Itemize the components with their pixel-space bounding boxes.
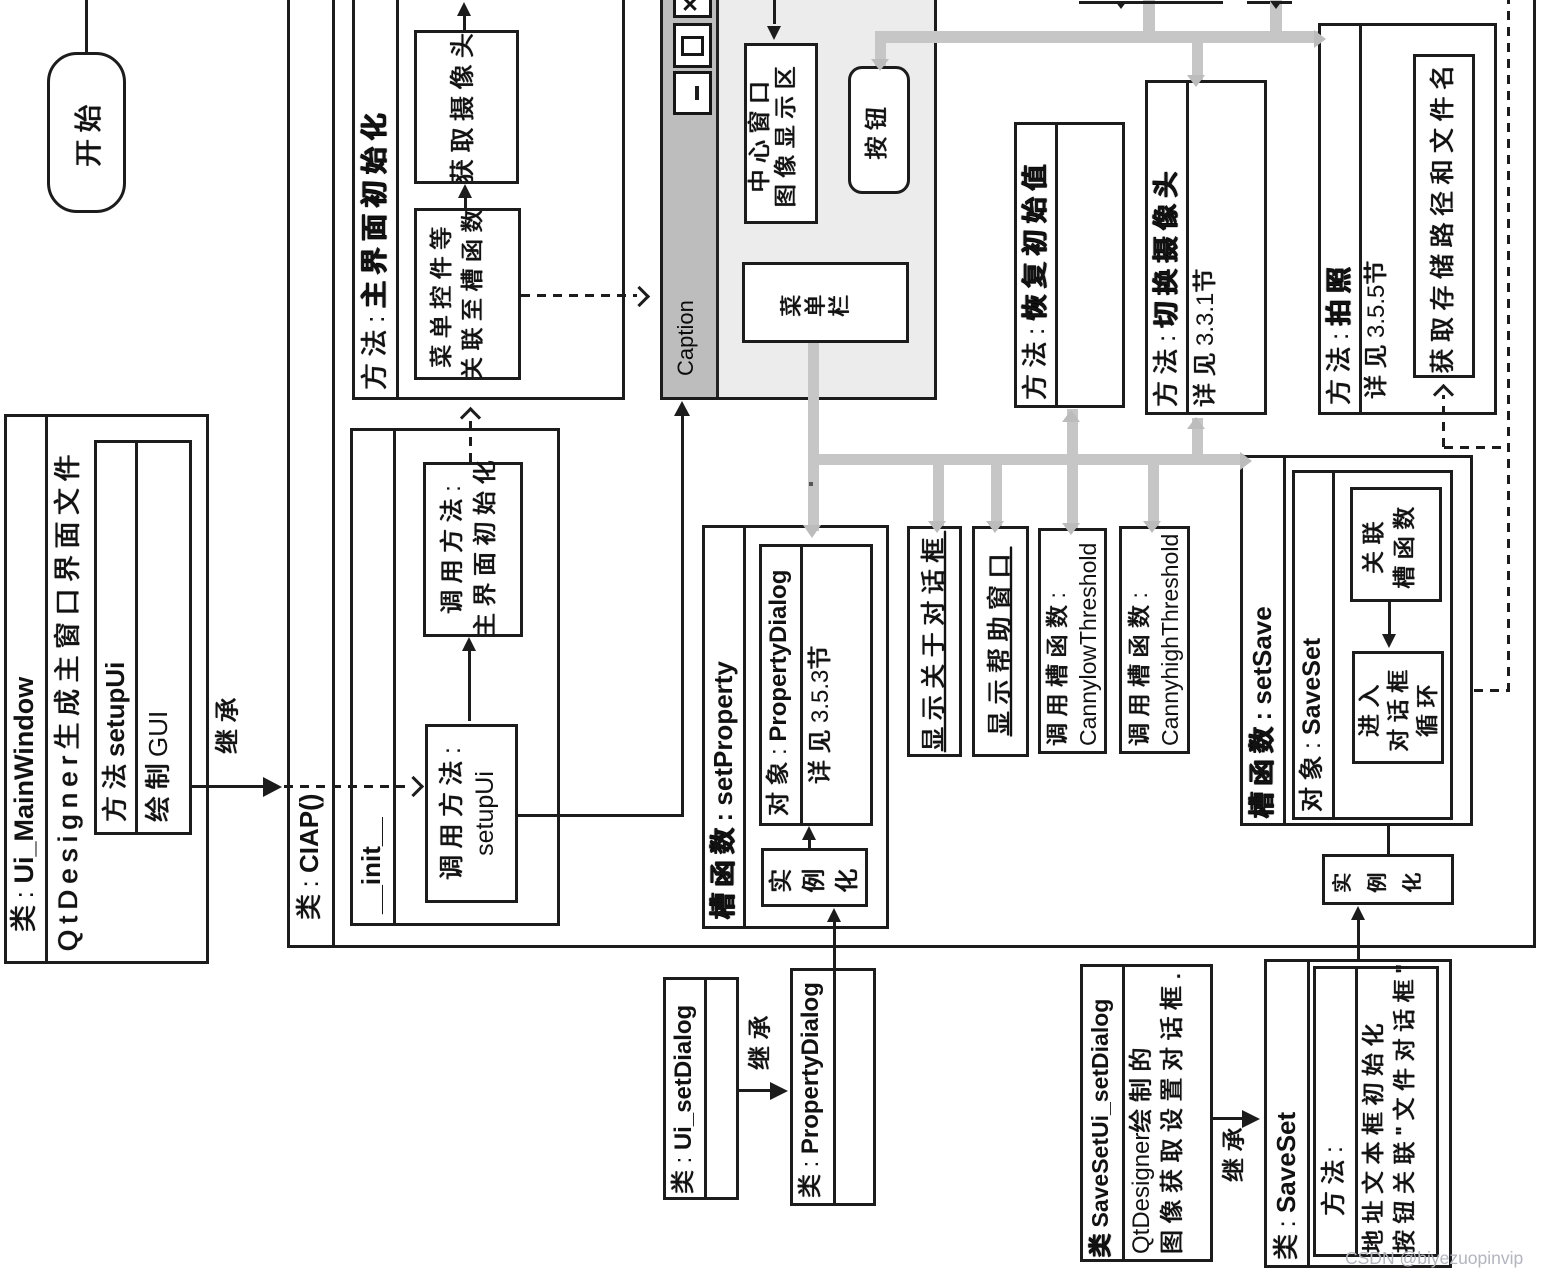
arrow SaveSet class to instantiate2 bbox=[1357, 919, 1360, 959]
class box PropertyDialog bbox=[790, 968, 876, 1206]
gray branch to switch-camera left bbox=[1192, 418, 1203, 459]
arrow setupUi to main-init bbox=[468, 651, 471, 721]
call setupUi box bbox=[425, 724, 518, 903]
inner methods box bbox=[1313, 966, 1439, 1257]
class box Ui_setDialog bbox=[663, 977, 739, 1200]
inner box setupUi bbox=[94, 440, 192, 835]
central image display box bbox=[744, 43, 818, 224]
arrow PropertyDialog class to instantiate bbox=[833, 922, 836, 968]
object box SaveSet bbox=[1292, 470, 1453, 820]
gray bus: main vertical bbox=[808, 454, 1244, 465]
slot box setSave bbox=[1240, 455, 1473, 826]
dashed path setSave to get-storage-path bbox=[1474, 689, 1510, 692]
gray bus: menubar to setProperty bbox=[808, 343, 819, 531]
__init__ box bbox=[350, 428, 560, 926]
gray arrowheads bbox=[803, 525, 821, 538]
method box 拍照 bbox=[1318, 23, 1497, 415]
object box PropertyDialog bbox=[759, 544, 873, 826]
gray elbow from button bbox=[875, 31, 886, 66]
arrow get-camera to edge bbox=[463, 16, 466, 30]
menu bar box bbox=[742, 262, 909, 343]
wire instantiate2 to setSave bbox=[1387, 826, 1390, 854]
method box 主界面初始化 bbox=[352, 0, 625, 400]
inheritance arrow Ui_setDialog to PropertyDialog bbox=[739, 1089, 772, 1092]
dashed arrow menu-controls down to window bbox=[521, 294, 637, 297]
gray stub to edge lower bbox=[1270, 0, 1282, 32]
start node 开始 bbox=[47, 52, 126, 213]
inheritance arrow Ui_MainWindow to CIAP bbox=[192, 785, 265, 788]
method box 切换摄像头 bbox=[1145, 80, 1267, 415]
gray branch cannylow to reset bbox=[1067, 409, 1078, 528]
node associate slot functions bbox=[1350, 487, 1442, 602]
arrow associate to enter-loop bbox=[1388, 602, 1391, 634]
wire from start to canvas edge bbox=[85, 0, 88, 52]
gray stub to edge upper bbox=[1143, 0, 1155, 32]
cut-off box edge sliver B with arrowhead bbox=[1247, 1, 1270, 4]
button node 按钮 bbox=[848, 66, 910, 194]
gray vertical button to photo bbox=[875, 31, 1318, 43]
node enter dialog loop bbox=[1352, 651, 1444, 764]
node show-about-dialog bbox=[907, 526, 962, 757]
inheritance arrow SaveSetUi to SaveSet bbox=[1213, 1117, 1244, 1120]
tiny dot bbox=[809, 482, 813, 486]
class box SaveSetUi_setDialog bbox=[1080, 964, 1213, 1262]
instantiate box 1 bbox=[761, 848, 868, 907]
gray branch to about-dialog bbox=[933, 459, 944, 526]
call main-init box bbox=[423, 462, 523, 637]
arrow instantiate to PropertyDialog object bbox=[808, 838, 811, 848]
node call slot CannyhighThreshold bbox=[1119, 526, 1190, 754]
thin arrow into central display from edge bbox=[773, 0, 776, 24]
gray branch to cannyhigh bbox=[1148, 459, 1159, 526]
menu controls box bbox=[414, 208, 521, 380]
node show-help-window bbox=[972, 526, 1029, 757]
class box CIAP bbox=[287, 0, 1536, 948]
class box Ui_MainWindow bbox=[4, 414, 209, 964]
class box SaveSet bbox=[1264, 959, 1452, 1268]
node get storage path and filename bbox=[1413, 54, 1475, 378]
connector __init__/setupUi down to window bbox=[518, 814, 684, 817]
gray branch to help-window bbox=[991, 459, 1002, 526]
instantiate box 2 bbox=[1322, 854, 1454, 905]
dashed arrow main-init call to method box bbox=[469, 420, 472, 462]
get camera box bbox=[414, 30, 519, 184]
method box 恢复初始值 bbox=[1014, 122, 1125, 408]
arrow menu-controls to get-camera bbox=[464, 198, 467, 208]
window mockup bbox=[660, 0, 937, 400]
node call slot CannylowThreshold bbox=[1038, 528, 1107, 754]
slot box setProperty bbox=[702, 525, 889, 929]
gray branch to switch-camera right bbox=[1192, 43, 1203, 80]
window button maximize bbox=[673, 23, 712, 68]
window button minimize bbox=[673, 71, 712, 115]
cut-off box edge sliver A with arrowhead bbox=[1079, 1, 1223, 4]
window button close bbox=[673, 0, 712, 18]
